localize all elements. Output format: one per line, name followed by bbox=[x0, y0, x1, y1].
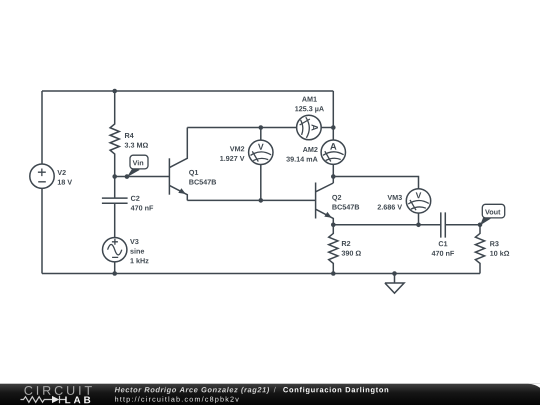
node junction VM3 bottom bbox=[416, 223, 421, 228]
label V3 freq 1 kHz bbox=[130, 258, 148, 263]
footer credit separator bbox=[274, 387, 276, 393]
logo diode symbol bbox=[52, 396, 59, 403]
resistor R2 bbox=[329, 225, 338, 274]
voltmeter VM3 bbox=[406, 189, 430, 213]
label V2 value 18 V bbox=[58, 180, 72, 185]
logo CIRCUIT wordmark bbox=[24, 386, 91, 395]
label R4 bbox=[125, 133, 134, 138]
label C2 bbox=[131, 196, 140, 201]
resistor R3 bbox=[475, 225, 484, 274]
node junction VM2 top bbox=[259, 125, 264, 130]
wire Q2 emitter rail to C1 bbox=[333, 224, 441, 226]
footer url bbox=[115, 396, 239, 403]
label VM3 value 2.686 V bbox=[378, 204, 403, 209]
wire top rail bbox=[42, 90, 333, 92]
voltage source V2 bbox=[30, 164, 54, 188]
label AM2 bbox=[303, 147, 318, 152]
wire Q1 emitter to Q2 base bbox=[187, 199, 315, 201]
label V2 bbox=[57, 170, 65, 175]
label V3 bbox=[130, 239, 139, 244]
wire right vertical from top rail to AM2 bbox=[332, 91, 334, 140]
wire Q2 collector node to VM3 bbox=[333, 177, 418, 189]
label V3 type sine bbox=[130, 248, 144, 253]
label C1 value 470 nF bbox=[432, 251, 454, 256]
transistor Q2 bbox=[316, 183, 334, 225]
node junction ground rail bbox=[392, 271, 397, 276]
wire bottom rail bbox=[42, 273, 480, 275]
voltmeter VM2 bbox=[249, 128, 273, 201]
label C2 value 470 nF bbox=[131, 205, 153, 210]
label Q2 bbox=[332, 195, 341, 201]
label AM1 bbox=[302, 97, 317, 102]
wire AM1 to right vertical bbox=[321, 127, 333, 129]
node junction R4/C2/base bbox=[112, 174, 117, 179]
node junction V3 bottom rail bbox=[112, 271, 117, 276]
transistor Q1 bbox=[169, 128, 187, 201]
logo resistor symbol bbox=[21, 397, 58, 403]
label VM2 bbox=[230, 146, 244, 151]
label R3 bbox=[490, 241, 498, 246]
wire VM3 bottom bbox=[418, 213, 420, 225]
flag Vin bbox=[125, 155, 148, 179]
label Q1 part BC547B bbox=[189, 179, 216, 184]
wire AM2 bottom to Q2 collector node bbox=[332, 164, 334, 183]
bar top-right rounded corner bbox=[528, 384, 540, 388]
node junction R2 bottom rail bbox=[331, 271, 336, 276]
logo LAB text bbox=[65, 396, 90, 403]
ground bbox=[385, 274, 404, 294]
wire left rail upper bbox=[41, 91, 43, 164]
label VM3 bbox=[387, 195, 401, 200]
label R4 value 3.3 MΩ bbox=[125, 143, 148, 148]
node junction AM1 right bbox=[331, 125, 336, 130]
label R2 value 390 Ω bbox=[342, 251, 361, 256]
capacitor C1 bbox=[441, 212, 480, 237]
label AM1 value 125.3 µA bbox=[295, 106, 324, 113]
label AM2 value 39.14 mA bbox=[286, 157, 317, 162]
wire input node to Q1 base bbox=[115, 176, 170, 178]
label R2 bbox=[342, 241, 350, 246]
footer credit title bbox=[283, 387, 388, 394]
label VM2 value 1.927 V bbox=[220, 156, 244, 161]
label Q2 part BC547B bbox=[332, 204, 359, 209]
label C1 bbox=[439, 241, 448, 246]
node junction Q2 collector bbox=[331, 174, 336, 179]
resistor R4 bbox=[110, 91, 119, 177]
wire left rail lower bbox=[41, 188, 43, 273]
label Q1 bbox=[189, 170, 198, 176]
ammeter AM2 bbox=[321, 140, 345, 164]
node junction Q2 emitter bbox=[331, 223, 336, 228]
label R3 value 10 kΩ bbox=[490, 251, 509, 256]
footer credit author bbox=[115, 387, 269, 394]
ammeter AM1 bbox=[297, 115, 322, 140]
flag Vout bbox=[478, 204, 505, 227]
voltage source V3 sine bbox=[103, 238, 127, 262]
node junction VM2 bottom bbox=[259, 198, 264, 203]
node junction R4 top rail bbox=[112, 89, 117, 94]
capacitor C2 bbox=[102, 177, 128, 238]
wire V3 bottom bbox=[114, 262, 116, 274]
wire Q1 collector rail bbox=[187, 127, 296, 129]
